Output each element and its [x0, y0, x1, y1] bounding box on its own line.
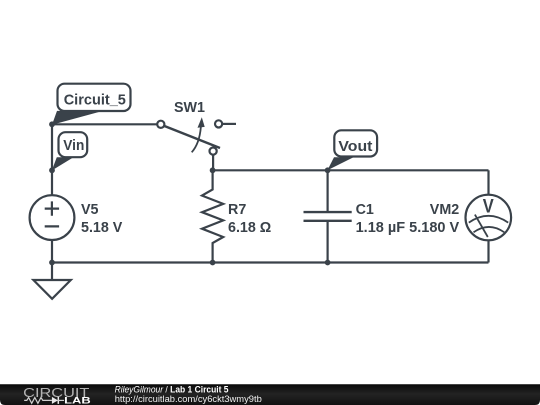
- node label Vout: [327, 130, 377, 170]
- wire top rail from node Circuit_5 to SW1 left contact: [52, 123, 157, 125]
- svg-text:SW1: SW1: [174, 100, 205, 116]
- node label Vin: [52, 132, 87, 170]
- voltage source V5: [30, 195, 75, 240]
- wire from V5 negative terminal down to ground: [51, 240, 53, 280]
- switch SW1: [157, 117, 222, 155]
- wire bottom rail: [52, 261, 489, 263]
- wire right vertical down to VM2 top: [487, 170, 489, 195]
- svg-text:V: V: [483, 197, 494, 218]
- svg-text:1.18 µF 5.180 V: 1.18 µF 5.180 V: [356, 220, 460, 236]
- svg-text:Circuit_5: Circuit_5: [64, 91, 126, 108]
- svg-text:RileyGilmour / Lab 1 Circuit 5: RileyGilmour / Lab 1 Circuit 5: [115, 384, 229, 394]
- svg-text:V5: V5: [81, 202, 99, 218]
- svg-text:LAB: LAB: [64, 396, 91, 405]
- junction dot node Circuit_5: [49, 121, 55, 127]
- footer bar: [0, 384, 540, 405]
- wire left vertical from top rail down to V5 positive terminal: [51, 124, 53, 195]
- wire middle rail Vout net: [213, 169, 489, 171]
- junction dot C1 bottom: [325, 260, 331, 266]
- svg-text:6.18 Ω: 6.18 Ω: [228, 220, 271, 236]
- wire SW1 bottom contact to middle rail junction: [212, 155, 214, 171]
- ground: [33, 280, 70, 299]
- svg-text:C1: C1: [356, 202, 374, 218]
- junction dot node Vout: [325, 167, 331, 173]
- svg-text:5.18 V: 5.18 V: [81, 220, 123, 236]
- wire VM2 bottom to bottom rail: [487, 240, 489, 263]
- wire SW1 right throw stub: [222, 123, 236, 125]
- svg-text:Vin: Vin: [63, 137, 84, 154]
- voltmeter VM2: [466, 195, 512, 241]
- svg-text:R7: R7: [228, 202, 246, 218]
- resistor R7: [202, 170, 223, 262]
- junction dot R7 bottom: [210, 260, 216, 266]
- svg-text:VM2: VM2: [430, 202, 459, 218]
- node label Circuit_5: [52, 84, 131, 125]
- svg-text:Vout: Vout: [338, 138, 372, 155]
- CircuitLab logo resistor-diode glyph: [24, 397, 64, 404]
- capacitor C1: [304, 170, 352, 262]
- junction dot SW1/R7 top: [210, 167, 216, 173]
- junction dot ground rail left: [49, 260, 55, 266]
- svg-text:http://circuitlab.com/cy6ckt3w: http://circuitlab.com/cy6ckt3wmy9tb: [115, 394, 262, 405]
- junction dot node Vin: [49, 167, 55, 173]
